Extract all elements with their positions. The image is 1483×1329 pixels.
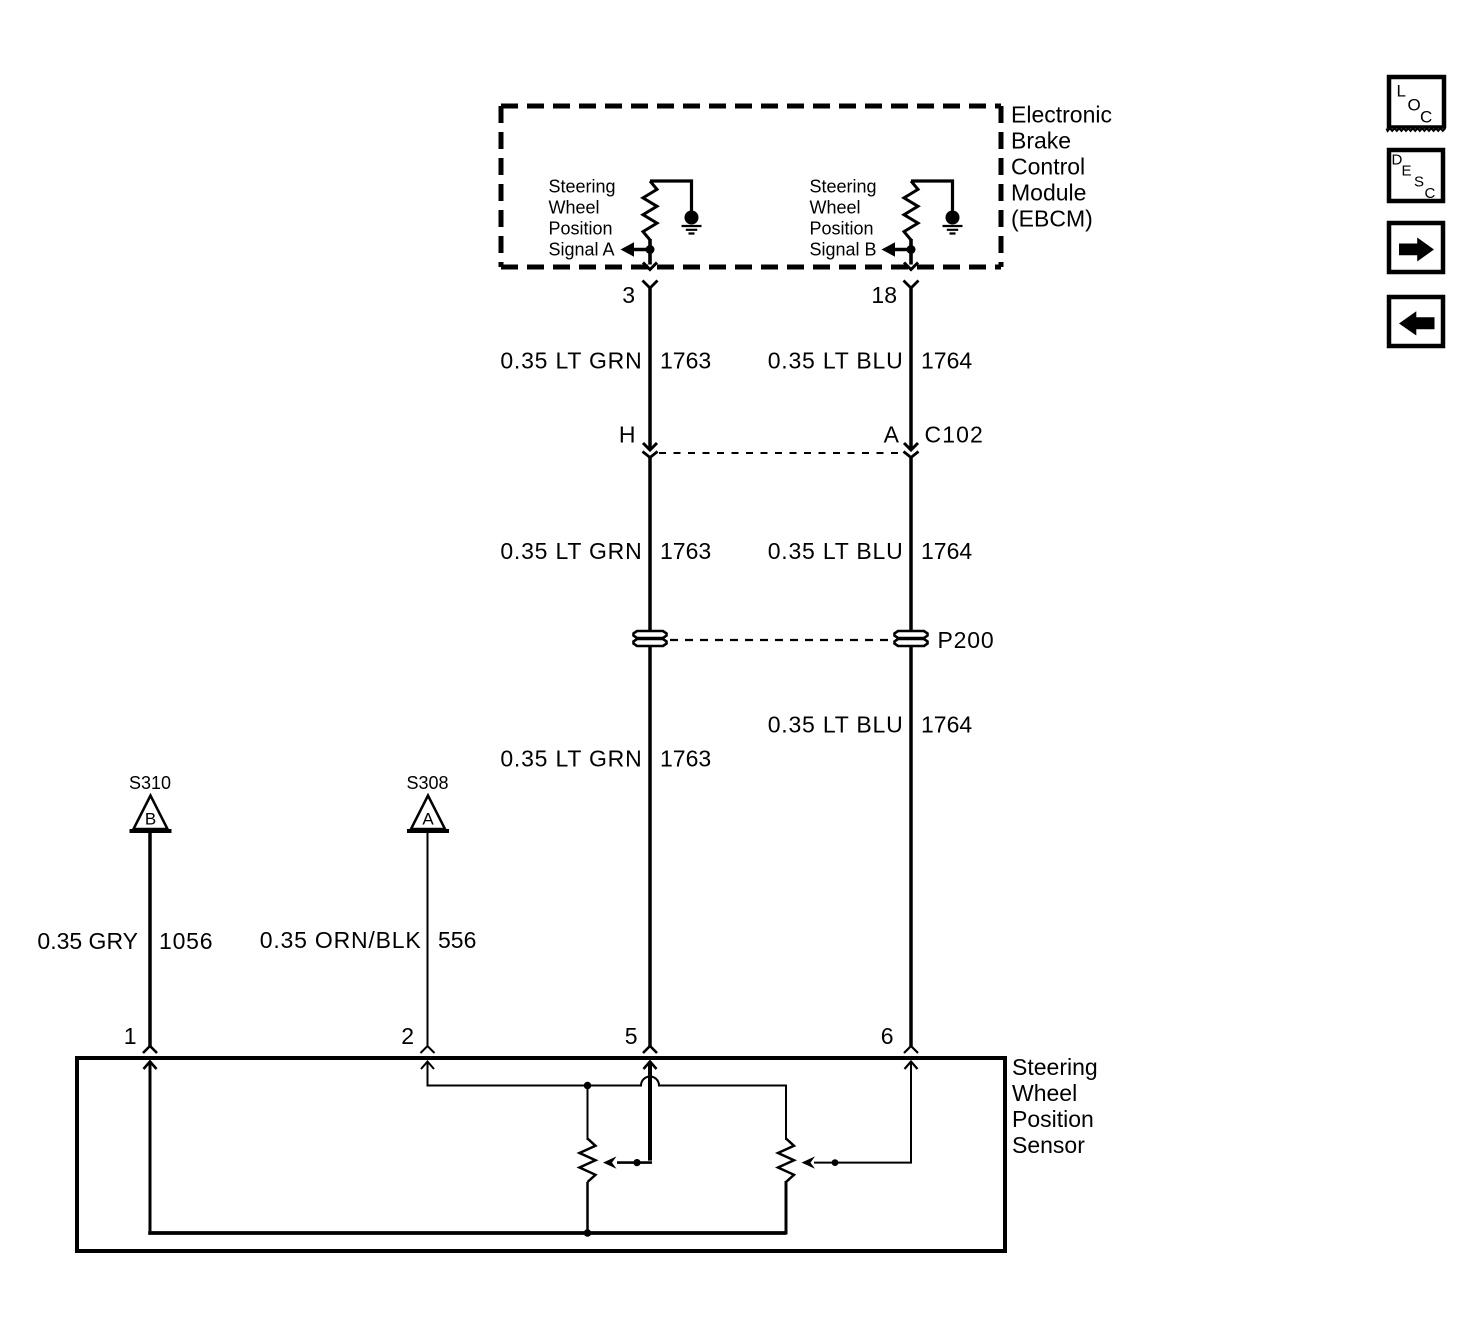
wire label 0.35 LT GRN 1763 (row 2) [500, 538, 711, 564]
terminal: sensor pin 1 male chevron (inside box) [144, 1062, 157, 1070]
terminal: EBCM pin 3 male chevron [643, 263, 657, 270]
svg-text:2: 2 [401, 1023, 414, 1049]
terminal: harness female Y at sensor pin 6 [904, 1046, 918, 1053]
svg-text:P200: P200 [938, 627, 995, 653]
svg-text:H: H [619, 422, 636, 448]
icon: forward arrow box [1389, 223, 1443, 272]
wire from splice S308 down to sensor [427, 833, 429, 1046]
svg-text:1764: 1764 [921, 348, 972, 374]
splice S308 triangle [407, 796, 449, 832]
svg-text:Steering: Steering [810, 177, 877, 197]
svg-text:6: 6 [881, 1023, 894, 1049]
node: bottom rail junction at resistor 1 [584, 1229, 592, 1237]
svg-text:1: 1 [124, 1023, 137, 1049]
terminal: harness female Y at sensor pin 2 [421, 1046, 435, 1053]
svg-text:Wheel: Wheel [549, 198, 600, 218]
wire label 0.35 LT BLU 1764 (row 1) [768, 348, 973, 374]
wire: sensor pin 5 to wiper of resistor 1 [648, 1062, 652, 1161]
terminal: sensor pin 2 male chevron (inside box) [421, 1062, 434, 1070]
wire: 1763 LT GRN, C102 to P200 [648, 458, 652, 631]
P200 grommet right [895, 631, 928, 646]
icon: LOC box (torn bottom) [1387, 77, 1447, 131]
wire: 1764 LT BLU, EBCM pin 18 to C102 pin A [909, 288, 913, 449]
node: wiper 2 dot [832, 1159, 839, 1166]
svg-text:18: 18 [871, 282, 897, 308]
label: Steering Wheel Position Sensor [1012, 1054, 1098, 1158]
svg-text:Signal B: Signal B [810, 239, 877, 259]
svg-text:0.35 LT BLU: 0.35 LT BLU [768, 538, 904, 564]
terminal: harness female Y at sensor pin 5 [643, 1046, 657, 1053]
svg-text:Module: Module [1011, 180, 1086, 206]
svg-text:0.35 ORN/BLK: 0.35 ORN/BLK [260, 927, 422, 953]
wire: 1763 LT GRN, P200 to sensor pin 5 [648, 646, 652, 1046]
terminal: harness female Y at sensor pin 1 [143, 1046, 157, 1053]
wire: bottom rail [148, 1231, 786, 1235]
node: junction below resistor (Signal B) [907, 245, 916, 254]
svg-text:C102: C102 [925, 422, 984, 448]
wire: sensor pin 2 to top rail (with hop over pin 5 wire) [428, 1062, 787, 1141]
icon: DESC box [1389, 150, 1443, 202]
label: Steering Wheel Position Signal A [549, 177, 616, 260]
wire: resistor bottom to module edge [648, 239, 652, 265]
C102 dashed connector line [659, 452, 902, 454]
terminal: harness female Y at pin 18 [904, 281, 919, 289]
wire label 0.35 ORN/BLK 556 [260, 927, 477, 953]
node: top rail junction at resistor 1 [584, 1082, 592, 1090]
svg-text:3: 3 [622, 282, 635, 308]
svg-text:L: L [1397, 82, 1406, 101]
svg-text:Steering: Steering [1012, 1054, 1098, 1080]
svg-text:O: O [1408, 96, 1421, 115]
arrow: Signal A tap [621, 242, 651, 256]
wire: resistor top to ground branch [911, 181, 953, 211]
connector C102 pin A (male chevron) [904, 443, 918, 450]
P200 dashed connector line [670, 639, 892, 641]
svg-text:Steering: Steering [549, 177, 616, 197]
svg-text:1056: 1056 [159, 928, 213, 954]
svg-text:0.35 GRY: 0.35 GRY [37, 928, 138, 954]
svg-text:S308: S308 [406, 773, 448, 793]
wire label 0.35 LT BLU 1764 (row 3) [768, 712, 973, 738]
wire: 1764 LT BLU, C102 to P200 [909, 458, 913, 631]
terminal: sensor pin 6 male chevron (inside box) [905, 1062, 918, 1070]
svg-text:Sensor: Sensor [1012, 1132, 1085, 1158]
svg-text:C: C [1425, 185, 1436, 202]
wire label 0.35 LT GRN 1763 (row 1) [500, 348, 711, 374]
arrow: wiper of resistor 1 [603, 1156, 617, 1168]
wire: resistor 1 bottom to bottom rail [586, 1182, 589, 1233]
wire label 0.35 GRY 1056 [37, 928, 213, 954]
terminal: sensor pin 5 male chevron (inside box) [644, 1062, 657, 1070]
svg-text:Wheel: Wheel [810, 198, 861, 218]
svg-text:Position: Position [810, 218, 874, 238]
resistor 1 (sensor potentiometer A) [580, 1139, 596, 1183]
svg-text:E: E [1402, 163, 1412, 180]
wire: bottom rail to resistor 2 bottom [785, 1181, 788, 1235]
svg-text:S310: S310 [129, 773, 171, 793]
ground (EBCM internal, Signal A) [682, 211, 702, 234]
svg-text:556: 556 [438, 927, 476, 953]
svg-text:S: S [1414, 174, 1424, 191]
node: junction below resistor (Signal A) [646, 245, 655, 254]
arrow: Signal B tap [882, 242, 912, 256]
resistor (EBCM pull-up, Signal B) [904, 181, 918, 240]
wire: sensor pin 6 to wiper of resistor 2 [814, 1062, 911, 1163]
svg-text:A: A [884, 422, 900, 448]
svg-text:(EBCM): (EBCM) [1011, 206, 1093, 232]
wire: sensor pin 1 to bottom rail [149, 1062, 152, 1232]
svg-text:0.35 LT BLU: 0.35 LT BLU [768, 348, 904, 374]
svg-text:1763: 1763 [660, 538, 711, 564]
svg-text:0.35 LT BLU: 0.35 LT BLU [768, 712, 904, 738]
svg-text:Electronic: Electronic [1011, 102, 1112, 128]
svg-text:Position: Position [549, 218, 613, 238]
wire label 0.35 LT GRN 1763 (row 3) [500, 746, 711, 772]
node: wiper 1 dot [633, 1159, 640, 1166]
svg-text:1763: 1763 [660, 746, 711, 772]
connector C102 pin A female Y [904, 452, 919, 458]
label: Steering Wheel Position Signal B [810, 177, 877, 260]
wire: 1763 LT GRN, EBCM pin 3 to C102 pin H [648, 288, 652, 449]
svg-text:Position: Position [1012, 1106, 1094, 1132]
arrow: wiper of resistor 2 [802, 1156, 816, 1168]
splice S310 triangle [130, 796, 172, 832]
EBCM module box (dashed) [501, 106, 1001, 267]
svg-text:1764: 1764 [921, 538, 972, 564]
svg-text:1763: 1763 [660, 348, 711, 374]
svg-text:B: B [145, 810, 156, 829]
svg-text:A: A [422, 810, 434, 829]
svg-text:Brake: Brake [1011, 128, 1071, 154]
wire: resistor top to ground branch [650, 181, 692, 211]
P200 grommet left [634, 631, 667, 646]
svg-text:C: C [1420, 108, 1432, 127]
svg-text:Signal A: Signal A [549, 239, 615, 259]
svg-text:0.35 LT GRN: 0.35 LT GRN [500, 746, 642, 772]
icon: back arrow box [1389, 297, 1443, 346]
wire: top rail junction down to resistor 1 [587, 1086, 589, 1141]
wire: resistor bottom to module edge [909, 239, 913, 265]
svg-text:0.35 LT GRN: 0.35 LT GRN [500, 538, 642, 564]
wire: 1764 LT BLU, P200 to sensor pin 6 [909, 646, 913, 1046]
resistor 2 (sensor potentiometer B) [778, 1139, 794, 1183]
svg-text:1764: 1764 [921, 712, 972, 738]
svg-text:0.35 LT GRN: 0.35 LT GRN [500, 348, 642, 374]
wire from splice S310 down to sensor [148, 833, 152, 1046]
connector C102 pin H (male chevron) [643, 443, 657, 450]
svg-text:Wheel: Wheel [1012, 1080, 1077, 1106]
label: Electronic Brake Control Module (EBCM) [1011, 102, 1112, 232]
connector C102 pin H female Y [643, 452, 658, 458]
ground (EBCM internal, Signal B) [943, 211, 963, 234]
resistor (EBCM pull-up, Signal A) [643, 181, 657, 240]
wire label 0.35 LT BLU 1764 (row 2) [768, 538, 973, 564]
svg-text:5: 5 [625, 1023, 638, 1049]
terminal: EBCM pin 18 male chevron [904, 263, 918, 270]
terminal: harness female Y at pin 3 [643, 281, 658, 289]
svg-text:Control: Control [1011, 154, 1085, 180]
Steering Wheel Position Sensor box [77, 1058, 1005, 1251]
